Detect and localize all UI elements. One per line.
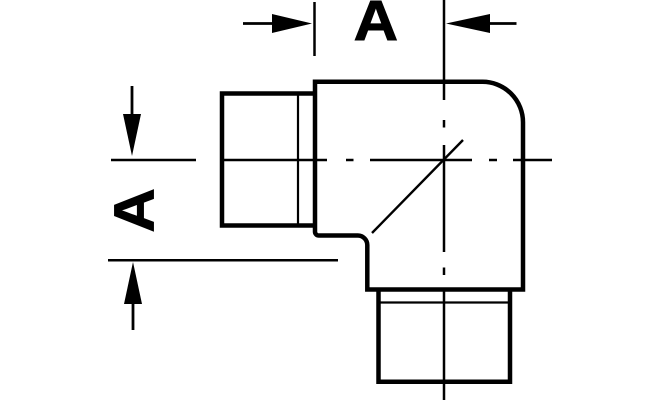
left tube socket (222, 94, 315, 226)
top dimension extension line (313, 2, 316, 56)
svg-text:A: A (354, 0, 398, 52)
horizontal centerline (222, 159, 552, 162)
left socket chamfer line (297, 95, 299, 224)
top dimension left arrow (243, 14, 312, 33)
bottom tube spigot (379, 290, 511, 382)
left dimension lower arrow (124, 262, 142, 330)
bottom spigot chamfer line (380, 301, 509, 303)
left dimension lower extension line (108, 259, 338, 262)
left dimension upper arrow (123, 86, 141, 156)
elbow body outline (315, 82, 523, 290)
miter joint line (372, 140, 463, 233)
top dimension right arrow (446, 14, 517, 33)
left dimension upper extension line (111, 159, 196, 162)
vertical centerline (443, 0, 446, 400)
svg-text:A: A (101, 188, 165, 232)
